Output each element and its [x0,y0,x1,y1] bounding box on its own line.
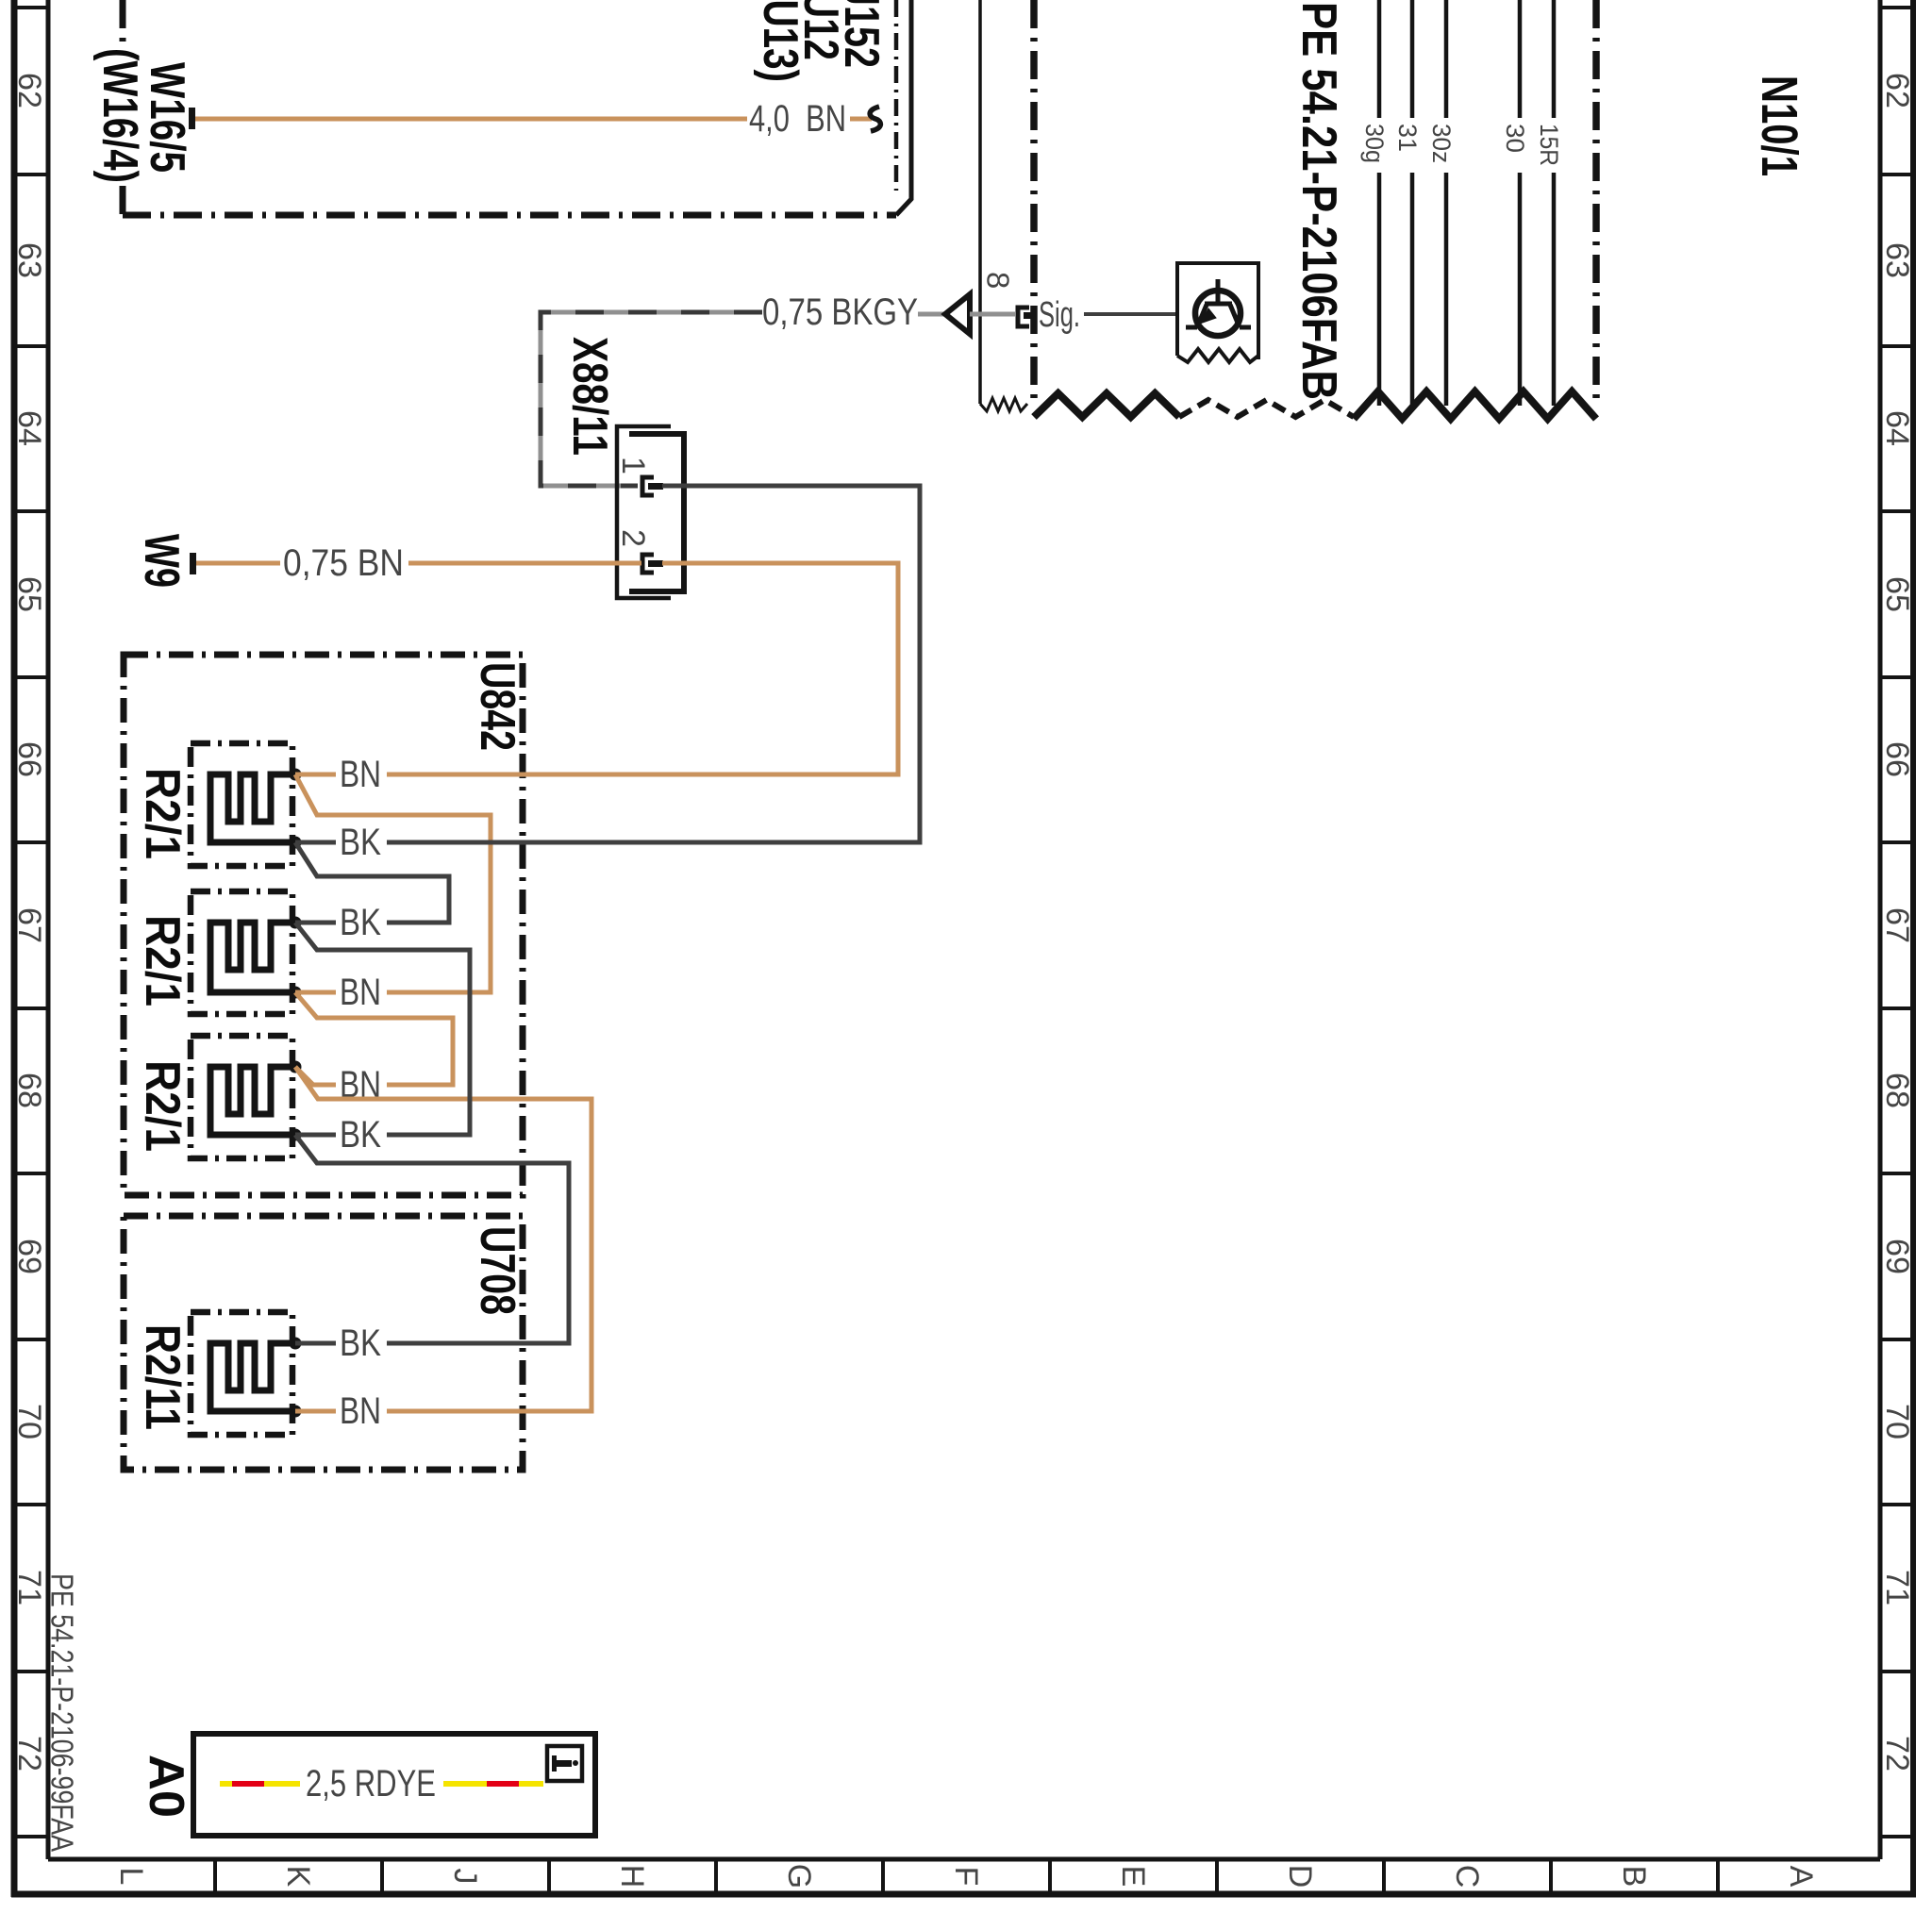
svg-text:64: 64 [1879,410,1915,446]
N10/1 housing left dash-dot edge [1030,0,1038,400]
connector arrow (open triangle) [945,294,970,334]
svg-text:66: 66 [11,741,47,777]
heater meander R2/1 (2) [210,923,295,992]
svg-text:U708: U708 [470,1226,525,1315]
svg-text:J: J [447,1869,483,1885]
svg-text:30z: 30z [1427,124,1456,163]
svg-text:2: 2 [615,529,651,547]
wire 0,75 BKGY dashed black/gray [541,312,762,486]
N10/1 pin line 30 [1518,0,1523,118]
svg-text:R2/11: R2/11 [135,1324,190,1430]
plus terminal icon [547,1746,582,1781]
svg-text:0,75 BKGY: 0,75 BKGY [762,291,918,333]
terminal dots R2/1 (1) [290,769,302,781]
svg-text:U842: U842 [470,662,525,751]
wire 2,5 RDYE right [443,1781,543,1787]
svg-text:PE 54.21-P-2106-99FAA: PE 54.21-P-2106-99FAA [45,1573,80,1852]
wire BK from X88/11 pin1 to R2/1(1) [387,486,920,842]
svg-text:(U13): (U13) [753,0,808,82]
svg-text:1: 1 [615,457,651,474]
svg-text:BK: BK [340,1322,381,1364]
svg-text:D: D [1282,1865,1318,1888]
control unit J152 U12 (U13) box [123,0,911,215]
socket bracket Sig. pin [1018,308,1029,326]
glow heater element R2/11 box [191,1312,292,1435]
transistor symbol circle [1195,291,1241,336]
wire break squiggle [870,107,880,131]
svg-text:N10/1: N10/1 [1751,75,1807,176]
wire BN R2/1(2) to R2/1(3) [295,992,453,1085]
svg-text:70: 70 [1879,1404,1915,1439]
pin 1 bracket [642,477,654,495]
svg-text:PE 54.21-P-2106FAB: PE 54.21-P-2106FAB [1291,2,1346,400]
wire BK R2/1(1) to R2/1(2) [295,842,449,923]
svg-text:71: 71 [1879,1570,1915,1605]
wire BK R2/1(2) to R2/1(3) [295,923,470,1135]
svg-text:62: 62 [1879,73,1915,108]
svg-text:68: 68 [1879,1073,1915,1108]
svg-text:BN: BN [340,754,381,795]
N10/1 housing right dash-dot edge [1592,0,1600,400]
svg-text:A: A [1783,1866,1819,1888]
svg-text:X88/11: X88/11 [562,337,617,456]
transistor symbol [1186,279,1251,327]
wire 0,75 BN from W9 [196,561,280,566]
svg-text:0,75 BN: 0,75 BN [283,542,404,584]
svg-text:69: 69 [11,1239,47,1274]
svg-text:G: G [781,1864,817,1888]
terminal tick W9 [190,553,196,574]
N10/1 pin line 30z [1444,0,1449,118]
N10/1 pin line 15R [1552,0,1557,118]
heater meander R2/1 (3) [210,1067,295,1135]
pin bar [1024,312,1037,319]
svg-text:65: 65 [11,576,47,612]
svg-text:Sig.: Sig. [1039,295,1080,335]
svg-text:BK: BK [340,902,381,943]
wire gray segment arrow to pin [970,312,1015,317]
svg-text:H: H [614,1865,650,1888]
small tear zigzag [980,398,1027,411]
svg-text:67: 67 [1879,907,1915,943]
svg-text:W9: W9 [134,534,189,588]
glow heater element R2/1 (3) box [191,1036,292,1158]
svg-text:R2/1: R2/1 [135,1060,190,1152]
svg-text:K: K [280,1866,316,1888]
svg-text:63: 63 [11,242,47,278]
svg-text:L: L [113,1868,149,1886]
svg-text:F: F [948,1867,984,1887]
N10/1 pin line 30g [1377,0,1382,118]
heater unit U842 box [124,655,523,1195]
wire 4,0 BN [195,117,747,122]
svg-text:72: 72 [11,1736,47,1772]
svg-text:(W16/4): (W16/4) [92,48,147,183]
wire 2,5 RDYE left [220,1781,300,1787]
svg-text:2,5 RDYE: 2,5 RDYE [306,1763,436,1805]
terminal tick W16/5 [189,108,195,129]
svg-text:A0: A0 [139,1755,193,1818]
terminal dots R2/1 (2) [290,917,302,929]
heater meander R2/11 [210,1343,295,1411]
svg-text:67: 67 [11,907,47,943]
svg-text:15R: 15R [1535,124,1563,166]
svg-text:R2/1: R2/1 [135,915,190,1006]
N10/1 bottom tear zigzag [1034,393,1179,417]
N10/1 pin line 31 [1410,0,1415,118]
glow heater element R2/1 (1) box [191,743,292,866]
svg-text:71: 71 [11,1570,47,1605]
svg-text:BN: BN [340,1390,381,1432]
wire BN R2/1(3) to R2/11 [295,1067,591,1411]
terminal dots R2/1 (3) [290,1061,302,1073]
svg-text:E: E [1115,1866,1151,1888]
svg-text:8: 8 [981,272,1016,289]
svg-text:4,0 BN: 4,0 BN [749,98,846,140]
svg-text:30: 30 [1501,124,1529,153]
connector X88/11 housing [617,426,684,598]
wire Sig. to output stage [1084,312,1177,316]
svg-text:BK: BK [340,1114,381,1156]
svg-text:63: 63 [1879,242,1915,278]
wire BN from X88/11 pin2 to R2/1(1) [387,563,898,774]
svg-text:BN: BN [340,972,381,1013]
svg-text:64: 64 [11,410,47,446]
control unit N10/1 left connector edge [978,0,982,404]
svg-text:70: 70 [11,1404,47,1439]
svg-text:C: C [1449,1865,1485,1888]
battery A0 box [193,1734,595,1836]
glow heater element R2/1 (2) box [191,891,292,1014]
svg-text:65: 65 [1879,576,1915,612]
svg-text:72: 72 [1879,1736,1915,1772]
wire BK R2/1(3) to R2/11 [295,1135,569,1343]
svg-text:69: 69 [1879,1239,1915,1274]
svg-text:62: 62 [11,73,47,108]
heater unit U708 box [124,1216,523,1470]
svg-text:66: 66 [1879,741,1915,777]
svg-text:R2/1: R2/1 [135,768,190,859]
svg-text:30g: 30g [1360,124,1389,163]
svg-text:31: 31 [1393,124,1422,152]
wire BN R2/1(1) to R2/1(2) [295,774,491,992]
wire 0,75 BKGY gray segment to arrow [918,312,947,317]
svg-text:BK: BK [340,822,381,863]
svg-text:68: 68 [11,1073,47,1108]
heater meander R2/1 (1) [210,774,295,842]
pin 2 bracket [642,555,654,573]
terminal dots R2/11 [290,1338,302,1350]
transistor output stage box [1177,263,1258,359]
svg-text:B: B [1616,1866,1652,1888]
